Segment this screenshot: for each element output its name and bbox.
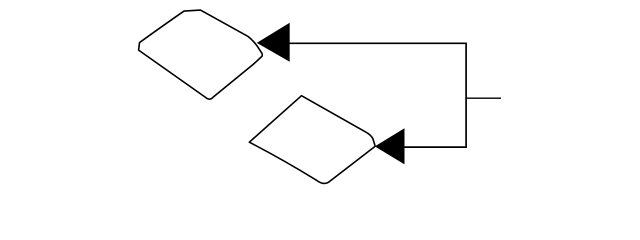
node B (bottom quadrilateral) bbox=[249, 96, 375, 184]
node A (top quadrilateral with cut/round corners) bbox=[139, 10, 263, 99]
arrowhead into node B bbox=[375, 128, 405, 164]
arrowhead into node A bbox=[257, 23, 290, 62]
wire (stub to the right) bbox=[466, 97, 501, 99]
wire (top horizontal, right vertical, bottom horizontal) bbox=[289, 43, 467, 147]
